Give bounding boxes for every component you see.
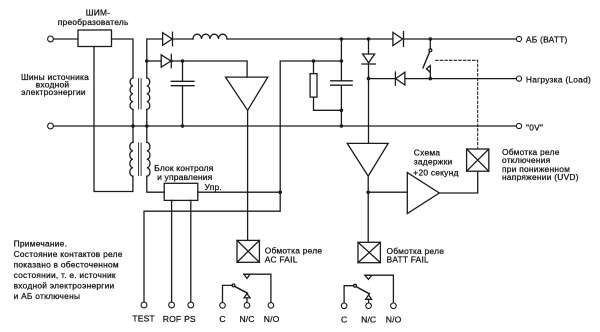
svg-text:N/C: N/C — [361, 314, 376, 324]
svg-text:ROF: ROF — [163, 314, 181, 324]
svg-text:Примечание.: Примечание. — [14, 238, 68, 248]
svg-text:и АБ отключены: и АБ отключены — [14, 291, 81, 301]
svg-text:Упр.: Упр. — [205, 182, 222, 192]
svg-text:Нагрузка (Load): Нагрузка (Load) — [526, 75, 591, 85]
svg-text:преобразователь: преобразователь — [58, 17, 129, 27]
svg-text:BATT FAIL: BATT FAIL — [387, 254, 430, 264]
svg-text:ШИМ-: ШИМ- — [86, 7, 110, 17]
svg-text:задержки: задержки — [414, 157, 453, 167]
svg-text:AC FAIL: AC FAIL — [265, 254, 298, 264]
svg-text:входной электроэнергии: входной электроэнергии — [14, 280, 115, 290]
svg-text:TEST: TEST — [132, 313, 155, 323]
svg-text:"0V": "0V" — [526, 123, 543, 133]
svg-text:PS: PS — [184, 314, 196, 324]
svg-text:показано в обесточенном: показано в обесточенном — [14, 259, 119, 269]
svg-text:и управления: и управления — [157, 172, 213, 182]
svg-text:напряжении (UVD): напряжении (UVD) — [502, 172, 579, 182]
svg-text:C: C — [341, 314, 347, 324]
svg-text:N/O: N/O — [264, 314, 280, 324]
svg-text:N/O: N/O — [386, 314, 402, 324]
svg-text:АБ (ВАТТ): АБ (ВАТТ) — [526, 34, 568, 44]
svg-text:Состояние контактов реле: Состояние контактов реле — [14, 249, 123, 259]
svg-text:+20 секунд: +20 секунд — [413, 167, 458, 177]
svg-text:C: C — [219, 314, 225, 324]
svg-text:N/C: N/C — [239, 314, 254, 324]
svg-text:состоянии, т. е. источник: состоянии, т. е. источник — [14, 270, 116, 280]
svg-text:электроэнергии: электроэнергии — [21, 87, 86, 97]
